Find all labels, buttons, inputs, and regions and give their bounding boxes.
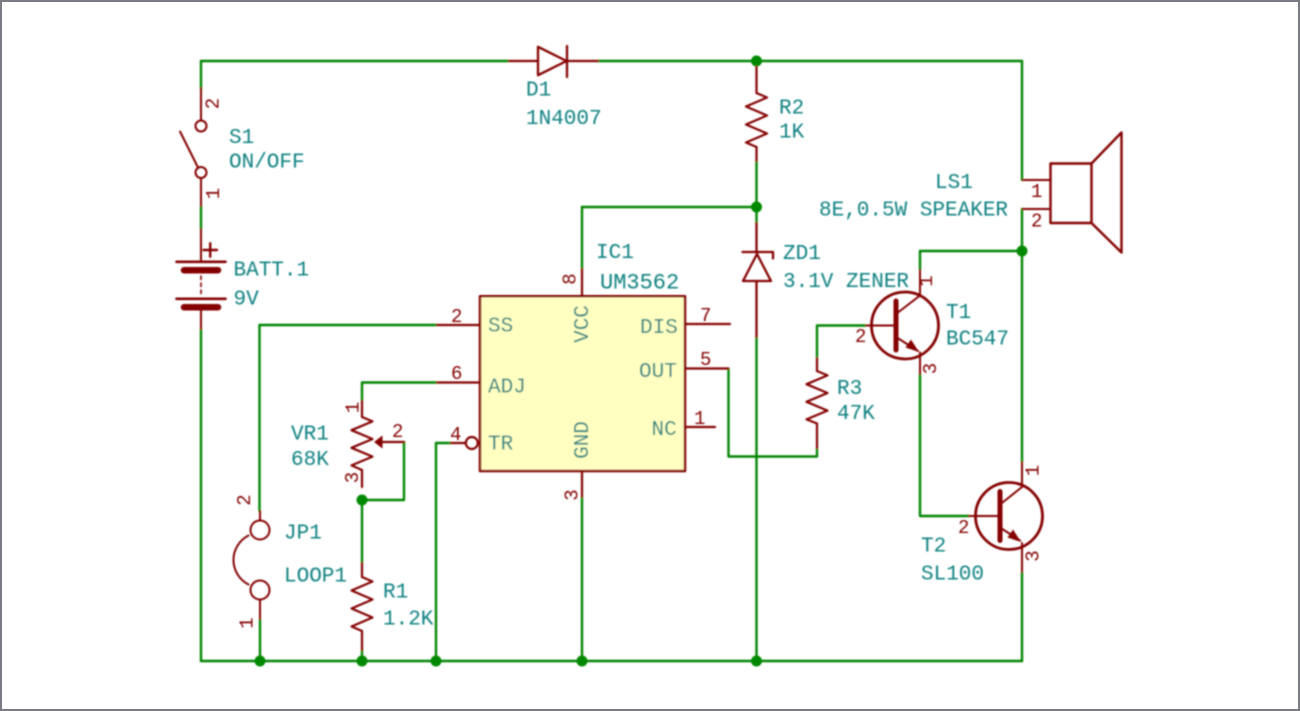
svg-text:BC547: BC547 [946,329,1009,352]
resistor R1 [352,563,373,650]
junction dot ZD1 bottom rail [751,656,762,667]
diode D1 [509,46,598,77]
wire R3 top to T1 base [817,326,866,359]
junction dot JP1 bottom rail [255,656,266,667]
wire node to R1 top [361,500,363,563]
junction dot R2/VCC/ZD1 node [751,202,762,213]
svg-text:SL100: SL100 [921,564,984,587]
svg-text:OUT: OUT [639,361,677,384]
svg-text:VCC: VCC [572,305,595,343]
pin 7 DIS [685,323,730,325]
svg-text:D1: D1 [526,80,551,103]
svg-text:1: 1 [343,402,365,413]
wire T1 emitter to T2 base [920,374,969,516]
svg-text:3: 3 [342,472,364,483]
potentiometer VR1 [352,401,405,487]
T1 emitter arrow [906,340,920,353]
wire T1 collector vertical [919,251,921,270]
wire R1 bottom [361,650,363,661]
svg-text:2: 2 [451,306,462,328]
svg-text:1: 1 [916,275,938,286]
svg-text:1.2K: 1.2K [383,609,434,632]
svg-text:ON/OFF: ON/OFF [229,152,305,175]
jumper JP1 [233,511,269,619]
wire JP1 bottom [259,619,261,661]
svg-text:1: 1 [237,617,259,628]
svg-text:1: 1 [1031,181,1042,203]
junction dot speaker/T1/T2 node [1017,246,1028,257]
wire R2 bottom to node [755,161,757,207]
svg-text:1K: 1K [779,122,805,145]
svg-text:47K: 47K [837,403,875,426]
svg-text:3: 3 [562,489,584,500]
svg-text:S1: S1 [229,127,254,150]
pin 2 SS [437,324,480,326]
IC U1 body UM3562 [480,296,685,471]
svg-text:1: 1 [1023,465,1045,476]
battery BATT.1 [177,229,226,329]
pin 8 VCC [581,269,583,296]
svg-text:R3: R3 [837,378,862,401]
junction dot R1 bottom rail [357,656,368,667]
wire speaker pin2 drop [1021,209,1023,251]
svg-text:IC1: IC1 [596,242,634,265]
wire GND to bottom rail [581,497,583,661]
svg-text:3.1V ZENER: 3.1V ZENER [783,271,909,294]
svg-text:8E,0.5W SPEAKER: 8E,0.5W SPEAKER [819,200,1008,223]
wire ZD1 anode to bottom rail [755,337,757,661]
svg-text:1N4007: 1N4007 [526,108,602,131]
wire TR vertical to bottom rail [436,443,451,661]
svg-text:1: 1 [694,408,705,430]
svg-text:TR: TR [488,434,514,457]
svg-text:2: 2 [234,494,256,505]
svg-text:NC: NC [652,419,677,442]
wire battery to bottom rail [200,329,202,661]
resistor R3 [807,358,828,448]
wire right drop to speaker pin1 [1021,61,1023,180]
junction dot TR bottom rail [431,656,442,667]
speaker LS1 [1023,133,1122,253]
wire top rail left [201,60,509,62]
svg-text:VR1: VR1 [291,424,329,447]
svg-text:7: 7 [700,305,711,327]
wire left vertical top [200,61,202,90]
wire switch to battery [200,206,202,229]
svg-text:SS: SS [488,316,513,339]
wire VCC vertical [581,207,583,269]
svg-text:T2: T2 [921,536,946,559]
wire ZD1 top [755,207,757,223]
svg-text:4: 4 [450,424,461,446]
svg-text:3: 3 [920,363,942,374]
pin 6 ADJ [437,381,480,383]
switch S1 [180,88,207,206]
pin 4 TR with bubble [466,437,478,449]
svg-text:JP1: JP1 [284,523,322,546]
wire node to VCC horizontal [582,206,757,208]
svg-text:BATT.1: BATT.1 [234,260,310,283]
svg-text:R1: R1 [383,582,408,605]
transistor T2 SL100 [969,462,1043,572]
svg-text:68K: 68K [291,449,329,472]
transistor T1 BC547 [866,270,939,374]
junction dot D1/R2 node [751,56,762,67]
wire top rail right [598,60,1022,62]
svg-text:9V: 9V [234,289,260,312]
wire VR1 wiper to node [362,442,404,500]
wire T1 collector horizontal [920,250,1022,252]
svg-text:1: 1 [203,188,225,199]
wire bottom rail [201,660,1022,662]
wire ADJ to VR1 [362,383,437,402]
junction dot GND bottom rail [577,656,588,667]
svg-text:GND: GND [572,421,595,459]
svg-text:2: 2 [1031,211,1042,233]
svg-text:3: 3 [1023,550,1045,561]
svg-text:5: 5 [700,349,711,371]
svg-text:2: 2 [203,98,225,109]
wire T2 emitter drop [1021,572,1023,661]
svg-text:LOOP1: LOOP1 [284,566,347,589]
svg-text:R2: R2 [779,98,804,121]
pin 5 OUT [685,367,729,369]
svg-text:LS1: LS1 [935,172,973,195]
wire junction to T2 collector [1021,251,1023,462]
svg-text:8: 8 [560,273,582,284]
T2 emitter arrow [1008,530,1022,543]
svg-text:UM3562: UM3562 [600,271,679,296]
svg-text:T1: T1 [946,302,971,325]
pin 1 NC [685,426,715,428]
svg-text:6: 6 [451,363,462,385]
svg-text:2: 2 [958,517,969,539]
junction dot VR1/R1 node [357,495,368,506]
wire SS to JP1 [260,325,438,511]
pin 3 GND [581,471,583,497]
resistor R2 [746,67,767,162]
svg-text:DIS: DIS [640,317,678,340]
svg-text:2: 2 [855,326,866,348]
svg-text:ZD1: ZD1 [783,243,821,266]
zener diode ZD1 [743,223,774,337]
VR1 wiper arrow [374,436,383,449]
svg-text:2: 2 [392,421,403,443]
wire OUT to R3 bottom [729,369,818,457]
svg-text:ADJ: ADJ [488,377,526,400]
